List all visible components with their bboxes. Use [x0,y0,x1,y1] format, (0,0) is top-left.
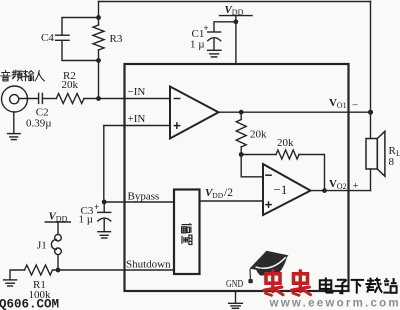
char dian 电 [320,277,333,292]
wire Shutdown pin [53,269,175,271]
wire speaker bottom to VO2 [370,169,372,191]
svg-text:+: + [204,23,209,33]
wire U1 output to VO1 [219,111,371,113]
node B junction dot bottom [96,58,101,63]
wire U2 plus input [200,200,264,202]
svg-text:O1: O1 [337,101,347,110]
svg-text:V: V [329,178,337,190]
label audio input 音频输入 (drawn strokes) [1,70,45,81]
wire Bypass pin [104,201,174,203]
op-amp U2 [263,164,311,215]
wire C1 branch [214,22,236,32]
svg-text:Bypass: Bypass [128,191,160,203]
svg-text:DD: DD [212,191,223,200]
capacitor C4 [56,34,70,36]
char xia 下 [351,280,365,294]
watermark site name 电子下载站 (drawn strokes) [320,277,397,293]
wire 20k to VO2 node [299,155,325,191]
wire feedback down to U2 minus [241,155,263,177]
ground (C3) [98,231,111,233]
svg-text:www.eeworm.com: www.eeworm.com [269,297,400,309]
capacitor C1 [208,31,221,33]
char pian 偏 [182,224,192,233]
node A junction dot top [96,15,101,20]
wire right vertical from top to VO1 [370,2,372,139]
node Bypass junction dot [102,200,107,205]
svg-text:DD: DD [56,215,68,224]
resistor R1 [25,265,53,275]
svg-text:8: 8 [389,156,395,168]
wire +IN to bypass vertical [103,126,105,203]
resistor R3 [93,25,104,50]
node VO1 junction dot at feedback tap [239,110,244,115]
op-amp U1 [170,87,219,139]
svg-text:+: + [94,202,99,212]
char pin 频 [12,70,22,81]
svg-text:J1: J1 [37,240,47,252]
resistor R2 [56,94,84,104]
svg-text:−IN: −IN [128,86,146,98]
ground (jack) [8,133,21,135]
wire C4 branch bottom [62,41,99,61]
char zai 载 [365,278,382,293]
jumper J1 [55,234,62,241]
svg-text:O2: O2 [337,182,347,191]
svg-text:/2: /2 [224,187,233,199]
ground (GND pin) [229,302,243,304]
svg-text:C4: C4 [41,32,54,44]
wire junction to 20k horizontal [241,154,276,156]
power VDD rail (J1) [45,221,70,223]
wire +IN pin [104,125,170,127]
svg-text:R3: R3 [110,33,123,45]
svg-text:20k: 20k [62,79,79,91]
wire U2 output VO2 [311,190,371,192]
wire C4 branch top [62,18,99,36]
IC box outline [125,64,349,291]
char shu 输 [23,70,34,81]
svg-text:20k: 20k [250,129,267,141]
svg-text:V: V [329,97,337,109]
char zhan 站 [383,278,396,293]
char ru 入 [35,71,44,81]
svg-text:GND: GND [226,278,243,290]
svg-text:+: + [353,180,359,192]
svg-text:20k: 20k [277,137,294,149]
input jack J connector [2,86,28,112]
speaker RL [366,139,377,170]
char zhi 置 [182,235,192,244]
resistor 20k vertical [240,112,242,119]
char zi 子 [335,280,349,294]
node VO1 junction dot at speaker [368,110,373,115]
wire R3 bottom stub to -IN node [98,50,100,99]
node -IN junction dot [96,96,101,101]
char yin 音 [1,70,10,81]
watermark bug char 1 虫 [264,271,283,296]
wire R2 to -IN pin [84,98,170,100]
watermark graduation cap logo [248,251,288,283]
wire jack to C2 [19,98,38,100]
node shutdown junction dot [56,268,61,273]
svg-text:−: − [352,100,358,112]
wire top-left vertical into R3/C4 top junction [98,2,100,26]
ground (C1) [208,49,221,51]
capacitor C3 [103,202,105,212]
svg-text:−1: −1 [274,182,288,197]
wire C2 to R2 [42,98,56,100]
power VDD rail (top C1) [220,15,253,17]
svg-text:Q606.COM: Q606.COM [0,298,59,310]
svg-text:+IN: +IN [128,113,146,125]
svg-text:L: L [396,149,400,158]
resistor 20k horizontal [276,150,299,159]
wire top feedback horizontal [99,1,371,3]
svg-text:DD: DD [232,8,244,17]
node VDD junction dot [234,19,239,24]
capacitor C2 [38,93,40,103]
wire jack ground stem [13,112,15,133]
node feedback junction dot [239,152,244,157]
svg-text:0.39µ: 0.39µ [26,118,52,130]
wire R1 left stub + ground stem [10,270,25,280]
svg-text:1 µ: 1 µ [190,39,205,51]
bias block label 偏置 (rotated strokes) [182,224,192,245]
ground (R1) [4,279,17,281]
node VO2 dot [322,188,327,193]
svg-text:1 µ: 1 µ [79,214,94,226]
wire J1 to shutdown node [57,255,59,270]
GND pin stem [235,291,237,303]
watermark bug char 2 虫 [292,271,311,296]
svg-text:Shutdown: Shutdown [126,259,171,271]
bias block box [174,190,200,275]
